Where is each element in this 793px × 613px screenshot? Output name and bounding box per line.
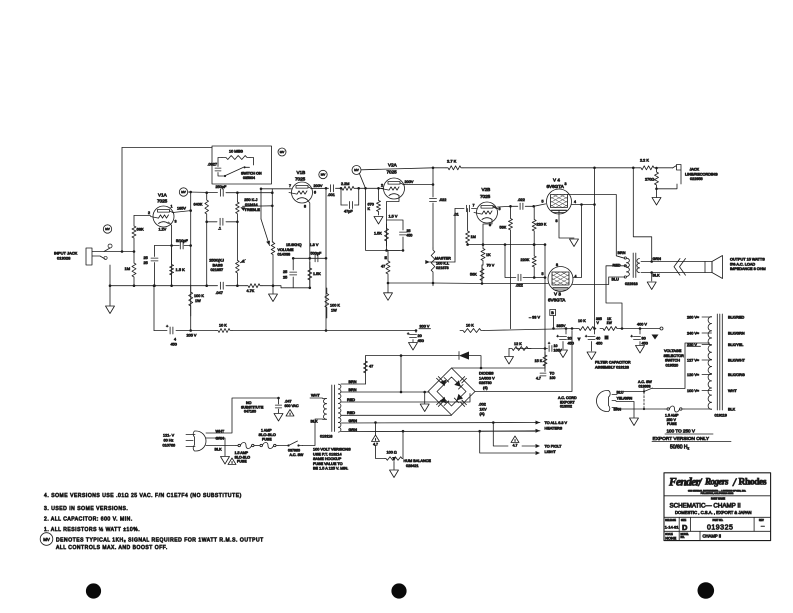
svg-text:12 K: 12 K xyxy=(514,342,522,346)
svg-text:8: 8 xyxy=(556,219,558,223)
junction dot bridge plus xyxy=(571,327,574,330)
svg-text:1W: 1W xyxy=(331,309,337,313)
ground bridge xyxy=(420,404,429,412)
junction dots tone xyxy=(205,191,208,194)
svg-text:205 V: 205 V xyxy=(187,334,197,338)
resistor 1.5K V1B xyxy=(308,262,312,288)
wire exp fuse to xfmr xyxy=(684,408,710,410)
svg-text:.001: .001 xyxy=(328,193,335,197)
wire V1B plate to coupling xyxy=(313,187,329,189)
svg-text:CBS MUSICAL INSTRUMENTS — A DI: CBS MUSICAL INSTRUMENTS — A DIVISION OF … xyxy=(688,490,746,493)
wire V2A plate xyxy=(405,184,434,186)
fuse 1.5A SLO-BLO xyxy=(236,445,238,447)
svg-text:.0027: .0027 xyxy=(208,163,218,167)
svg-text:.022: .022 xyxy=(518,198,525,202)
wire brn2 drop xyxy=(400,356,402,392)
resistor 1.5K V2A xyxy=(385,224,389,246)
svg-text:014038: 014038 xyxy=(278,253,291,257)
svg-text:/: / xyxy=(732,477,737,489)
resistor 220K V4 grid xyxy=(532,206,536,244)
wire treble wiper xyxy=(243,205,273,208)
svg-text:022918: 022918 xyxy=(625,282,638,286)
svg-text:20: 20 xyxy=(418,334,422,338)
svg-text:500pF: 500pF xyxy=(311,252,322,256)
wire ground bus right xyxy=(388,282,548,285)
wire RED2 tap xyxy=(341,414,452,416)
wire 640K branch xyxy=(206,193,208,196)
svg-text:022956: 022956 xyxy=(690,177,703,181)
wire NFB from speaker xyxy=(633,168,651,262)
junction dots V1B cath xyxy=(309,257,312,260)
speaker LS1 xyxy=(705,262,712,273)
svg-text:FUSE: FUSE xyxy=(262,438,272,442)
wire jack tip to grid node xyxy=(104,251,134,253)
wire bridge+ to 400V xyxy=(475,331,572,392)
wire BRN2 tap xyxy=(341,391,429,393)
svg-text:450: 450 xyxy=(596,341,602,345)
bridge diode D1 xyxy=(440,380,447,387)
wire bus to vol gnd xyxy=(262,285,273,287)
ground V4 cathode xyxy=(570,239,579,247)
wire V1B cathode down xyxy=(307,200,310,288)
capacitor .022 V2A xyxy=(430,198,437,200)
capacitor 47pF xyxy=(349,202,351,209)
marker square 40/450 xyxy=(605,336,609,340)
power transformer T1 secondary xyxy=(338,384,341,389)
resistor 10K B+ xyxy=(216,329,232,333)
svg-text:121- V: 121- V xyxy=(163,434,175,438)
svg-text:Rhodes: Rhodes xyxy=(739,478,767,488)
svg-text:FILTER CAPACITOR: FILTER CAPACITOR xyxy=(595,361,631,365)
svg-text:185V: 185V xyxy=(177,207,186,211)
wire grid V1A xyxy=(134,215,151,217)
svg-text:REV: REV xyxy=(759,520,764,522)
svg-text:5: 5 xyxy=(542,200,544,204)
svg-text:80: 80 xyxy=(642,337,646,341)
svg-text:MV: MV xyxy=(43,537,50,542)
resistor 10K B2 xyxy=(460,329,484,333)
wire humbal wiper gnd xyxy=(393,462,395,470)
svg-text:1M: 1M xyxy=(125,266,131,271)
wire gnd stem lineout xyxy=(656,189,658,198)
input jack J1 xyxy=(86,248,110,265)
wire plate line cont xyxy=(188,191,218,194)
jack line/recording J2 xyxy=(673,165,682,185)
svg-text:028421: 028421 xyxy=(406,464,419,468)
treble wiper arrow xyxy=(240,207,245,211)
svg-text:.047: .047 xyxy=(216,291,223,295)
test point MV input xyxy=(103,225,111,233)
wire humbal left stem2 xyxy=(376,446,386,459)
svg-text:047160: 047160 xyxy=(244,410,256,414)
bridge snubber cap A2 xyxy=(460,377,465,382)
svg-text:MV: MV xyxy=(105,227,110,231)
svg-text:7025: 7025 xyxy=(387,170,398,175)
junction dots bus xyxy=(236,284,239,287)
wire .01 to V2B grid xyxy=(472,208,477,210)
ground 670K xyxy=(374,217,383,225)
rectifier output symbol xyxy=(660,327,663,330)
capacitor 20/450 a xyxy=(410,334,417,336)
svg-text:VOLTAGE: VOLTAGE xyxy=(664,349,682,353)
test point BST FREQ xyxy=(352,166,361,175)
wire WHT drop xyxy=(310,397,323,399)
svg-text:4.7: 4.7 xyxy=(536,377,541,381)
wire B box stem xyxy=(553,316,555,329)
svg-text:450: 450 xyxy=(407,234,413,238)
ground export xyxy=(630,418,639,426)
svg-text:200V: 200V xyxy=(405,180,414,184)
wire speaker hot xyxy=(641,261,705,263)
svg-text:10: 10 xyxy=(554,344,558,348)
wire 25/450 down xyxy=(402,237,404,250)
svg-text:TO ALL 6.3 V: TO ALL 6.3 V xyxy=(545,421,568,425)
title divider 2 xyxy=(664,516,771,518)
punch hole left xyxy=(86,583,101,598)
resistor 1.5K V1A cathode xyxy=(170,246,174,286)
capacitor 4/450 xyxy=(169,327,171,334)
bridge snubber cap A4 xyxy=(460,402,465,407)
svg-text:260 V≈: 260 V≈ xyxy=(687,316,699,320)
tube V1B 7025 xyxy=(292,182,313,203)
resistor 270 lineout xyxy=(655,168,659,189)
wire bus mid xyxy=(226,285,246,287)
svg-text:V2B: V2B xyxy=(482,187,491,192)
svg-text:MV: MV xyxy=(280,150,285,154)
svg-text:47pF: 47pF xyxy=(344,210,353,214)
wire export tap BLK xyxy=(710,408,712,410)
capacitor 80/450 xyxy=(634,336,641,338)
wire export tap 260 V≈ xyxy=(702,316,712,318)
svg-text:2.2 K: 2.2 K xyxy=(640,159,649,163)
wire export tap 127 V≈ xyxy=(702,359,712,361)
svg-text:SLO-BLO: SLO-BLO xyxy=(259,432,276,437)
svg-text:BLK/ORG: BLK/ORG xyxy=(728,373,745,377)
svg-text:—: — xyxy=(761,524,765,528)
svg-text:V 4: V 4 xyxy=(553,178,560,183)
ground 20/450 b xyxy=(559,350,568,358)
wire 25/450 branch xyxy=(387,220,404,230)
wire export tap 100 V≈ xyxy=(702,390,712,392)
wire lineout to jack xyxy=(657,167,673,169)
wire export tap 220 V xyxy=(702,344,712,346)
power transformer T1 core xyxy=(332,385,335,432)
svg-text:1.5K: 1.5K xyxy=(313,272,321,276)
ground V2A 47 xyxy=(384,293,393,301)
svg-text:(A): (A) xyxy=(480,412,486,416)
wire 80/450 stem xyxy=(639,329,641,335)
wire GRN2 tap xyxy=(341,430,535,432)
speaker cable chevrons xyxy=(674,259,686,276)
potentiometer VOLUME 15.9K xyxy=(271,242,275,286)
resistor 10K screens xyxy=(577,327,596,331)
capacitor .022 to V4 xyxy=(519,203,521,209)
wire volume riser xyxy=(271,189,274,242)
wire 25/25 V1B to bus xyxy=(293,277,310,288)
wire mv stub xyxy=(359,173,365,188)
resistor 1K 1W xyxy=(600,327,620,331)
svg-text:1KV: 1KV xyxy=(480,407,488,411)
wire pilot 2 xyxy=(480,431,535,453)
svg-text:V: V xyxy=(597,321,600,325)
svg-text:25: 25 xyxy=(144,261,148,265)
wire V1B bus join left xyxy=(273,286,293,288)
wire boost loop xyxy=(218,158,222,167)
svg-text:1-14-81: 1-14-81 xyxy=(665,525,680,530)
svg-text:8: 8 xyxy=(556,263,558,267)
wire 47pF bypass loop xyxy=(340,188,342,205)
svg-text:.01: .01 xyxy=(454,213,459,217)
svg-text:+: + xyxy=(585,334,588,339)
svg-text:127 V≈: 127 V≈ xyxy=(687,359,699,363)
wire 12K gnd xyxy=(508,349,510,357)
svg-text:10 K: 10 K xyxy=(578,319,586,323)
svg-text:10 K: 10 K xyxy=(466,324,474,328)
AC plug export P2 xyxy=(597,391,611,412)
svg-text:PART NO.: PART NO. xyxy=(713,519,724,522)
svg-text:240 V≈: 240 V≈ xyxy=(687,332,699,336)
wire bias cap stub xyxy=(545,348,548,350)
wire spk gnd stem xyxy=(651,273,653,282)
svg-text:100 V≈: 100 V≈ xyxy=(687,389,699,393)
svg-text:5% A.C. LOAD: 5% A.C. LOAD xyxy=(730,262,755,266)
wire humbal right xyxy=(402,431,404,458)
capacitor 250pF xyxy=(219,189,221,196)
svg-text:SIZE: SIZE xyxy=(681,520,687,522)
svg-text:47: 47 xyxy=(369,365,373,369)
svg-text:MODEL: MODEL xyxy=(681,534,690,536)
svg-text:.022: .022 xyxy=(439,198,446,202)
svg-text:V1B: V1B xyxy=(297,170,306,175)
svg-text:!: ! xyxy=(375,438,376,442)
svg-text:DOMESTIC , C.S.A. , EXPORT & J: DOMESTIC , C.S.A. , EXPORT & JAPAN xyxy=(675,510,752,515)
svg-text:026730: 026730 xyxy=(479,381,492,385)
svg-text:010766: 010766 xyxy=(163,444,176,448)
svg-text:.022: .022 xyxy=(516,284,523,288)
svg-text:6V6GTA: 6V6GTA xyxy=(547,184,565,189)
ground lineout xyxy=(652,198,661,206)
svg-text:MV: MV xyxy=(354,168,359,172)
title divider 1 xyxy=(664,495,771,497)
wire 12K row xyxy=(516,348,545,350)
wire B+ rail xyxy=(154,330,167,332)
svg-text:019520: 019520 xyxy=(666,363,679,367)
svg-text:V2A: V2A xyxy=(388,163,398,168)
capacitor 40/450 xyxy=(588,336,595,338)
ground 12K xyxy=(505,357,514,365)
svg-text:25: 25 xyxy=(283,276,287,280)
capacitor 25/25 V1A xyxy=(151,257,158,259)
capacitor .1 tone xyxy=(219,218,221,225)
capacitor 500pF xyxy=(314,255,316,262)
resistor 1M input xyxy=(132,252,136,286)
wire 40/450 stem xyxy=(594,329,596,335)
output transformer T2 secondary xyxy=(637,259,640,264)
wire gnd stem input xyxy=(109,286,111,306)
svg-text:HUM BALANCE: HUM BALANCE xyxy=(404,459,432,463)
boost switch S1 xyxy=(226,168,244,176)
wire GRN1 tap xyxy=(341,422,535,425)
svg-text:GRN: GRN xyxy=(653,257,662,261)
svg-text:V1A: V1A xyxy=(158,193,168,198)
wire V2B plate coupling xyxy=(511,205,518,207)
junction dots humbal xyxy=(374,421,377,424)
svg-text:450: 450 xyxy=(568,341,574,345)
junction dots 400V xyxy=(593,327,596,330)
junction dots V2B xyxy=(482,243,485,246)
wire OT red tap xyxy=(606,266,627,329)
bridge snubber cap A1 xyxy=(437,378,442,383)
warning pilot xyxy=(511,436,519,443)
wire to V4 grid xyxy=(525,204,545,206)
bridge rectifier inner diamond xyxy=(437,377,466,406)
underline export xyxy=(652,434,731,442)
tube V3 6V6GTA xyxy=(548,267,573,292)
wire export tap 240 V≈ xyxy=(702,332,712,334)
svg-text:!: ! xyxy=(515,439,516,443)
svg-text:100 VOLT VERSIONS: 100 VOLT VERSIONS xyxy=(313,448,351,452)
wire ground bus left xyxy=(110,285,218,287)
svg-text:70 V: 70 V xyxy=(487,264,495,268)
svg-text:019325: 019325 xyxy=(707,525,733,532)
wire 40/450 gnd xyxy=(591,342,593,352)
wire jack bottom row xyxy=(657,184,678,189)
wire exp BRN xyxy=(617,408,644,410)
svg-text:.047: .047 xyxy=(285,400,292,404)
svg-text:YEL/GRN: YEL/GRN xyxy=(617,397,633,401)
svg-text:100 K.L: 100 K.L xyxy=(436,261,449,265)
svg-text:6: 6 xyxy=(499,207,501,211)
svg-text:4. SOME VERSIONS USE .01Ω 25: 4. SOME VERSIONS USE .01Ω 25 VAC. F/N C1… xyxy=(44,493,242,499)
svg-text:PART NAME: PART NAME xyxy=(711,498,725,501)
wire 80/450 gnd xyxy=(639,342,641,346)
svg-text:FUSE: FUSE xyxy=(237,460,247,464)
wire plug WHT xyxy=(206,398,279,433)
output transformer T2 primary xyxy=(627,258,630,263)
svg-text:019119: 019119 xyxy=(715,414,727,418)
potentiometer hum balance 100 xyxy=(385,457,403,461)
wire plate line cont2 xyxy=(226,192,272,194)
svg-text:200V: 200V xyxy=(314,184,323,188)
capacitor 4.7 bias xyxy=(540,372,546,374)
wire input riser xyxy=(121,148,123,252)
wire B+ rail 3 xyxy=(232,330,416,332)
resistor 47 V2A xyxy=(386,250,390,283)
wire fuse link xyxy=(256,445,258,447)
wire .047 stem xyxy=(278,398,280,404)
svg-text:+: + xyxy=(631,334,634,339)
svg-text:60 Hz: 60 Hz xyxy=(164,439,174,443)
bridge diode D2 xyxy=(454,380,461,387)
punch hole middle xyxy=(391,583,406,598)
boost switch box outline xyxy=(212,146,272,184)
bias test point box B xyxy=(550,310,556,316)
wire to V3 grid xyxy=(523,277,546,279)
svg-text:SAME HOOKUP: SAME HOOKUP xyxy=(313,457,342,461)
wire 25/25 down V1A xyxy=(154,263,156,286)
svg-text:25: 25 xyxy=(283,270,287,274)
capacitor 10/100V bias xyxy=(548,346,550,352)
junction dot riser left xyxy=(153,284,156,287)
wire jack ground stem xyxy=(109,265,111,286)
svg-text:B: B xyxy=(551,311,554,315)
wire B+ rail 4 xyxy=(484,329,577,331)
svg-text:NO.: NO. xyxy=(681,537,685,539)
svg-text:A.C. SW: A.C. SW xyxy=(290,453,304,457)
wire 5-10pF branch b xyxy=(184,245,191,247)
master wiper arrow xyxy=(425,260,430,264)
wire B+ riser V1B xyxy=(325,188,327,330)
wire V1A cathode xyxy=(169,222,172,286)
resistor 100K 1W V1B xyxy=(325,288,329,318)
junction dots top line xyxy=(593,167,596,170)
resistor 1K V2B xyxy=(481,245,485,265)
capacitor .01 xyxy=(466,205,468,211)
svg-text:56K: 56K xyxy=(500,226,507,230)
svg-text:(4): (4) xyxy=(483,386,488,390)
svg-text:SCHEMATIC— CHAMP II: SCHEMATIC— CHAMP II xyxy=(670,503,742,510)
svg-text:68K: 68K xyxy=(137,227,144,232)
svg-text:SCALE: SCALE xyxy=(665,533,673,536)
test point MV boost xyxy=(278,148,286,156)
svg-text:1.5K: 1.5K xyxy=(374,232,382,236)
svg-text:MV: MV xyxy=(181,190,186,194)
wire cathode row 500pF xyxy=(293,257,326,259)
potentiometer TREBLE 250K-J xyxy=(236,202,240,222)
svg-text:SELECTOR: SELECTOR xyxy=(664,354,685,358)
bridge snubber cap A3 xyxy=(437,400,442,405)
wire 20/450a gnd xyxy=(412,340,414,343)
svg-text:WHT: WHT xyxy=(311,394,320,398)
wire bridge gnd stem xyxy=(424,392,426,404)
svg-text:Rogers: Rogers xyxy=(704,477,729,487)
svg-text:7: 7 xyxy=(289,184,291,188)
svg-text:DIODES: DIODES xyxy=(479,372,494,376)
svg-text:BE 1.5 A 125 V. MIN.: BE 1.5 A 125 V. MIN. xyxy=(313,467,348,471)
arrow heaters 1 xyxy=(536,421,541,425)
test point MV V1B xyxy=(319,170,327,178)
junction dots rail mid xyxy=(552,327,555,330)
resistor 670K xyxy=(377,188,381,215)
svg-text:BLK/WHT: BLK/WHT xyxy=(728,359,746,363)
underline 220V xyxy=(687,345,701,347)
svg-text:1.2V: 1.2V xyxy=(159,228,167,232)
svg-text:+: + xyxy=(166,324,169,329)
svg-text:100 Ω: 100 Ω xyxy=(387,451,397,455)
resistor 15K bias xyxy=(543,352,547,368)
wire gnd stem vol xyxy=(272,286,274,294)
wire V2A grid return xyxy=(366,188,400,250)
resistor 68K grid stopper xyxy=(132,216,136,252)
svg-text:1K: 1K xyxy=(486,253,491,257)
export transformer T3 core xyxy=(717,314,722,410)
junction dots screens xyxy=(580,203,583,206)
svg-text:7025: 7025 xyxy=(480,194,491,199)
punch hole right xyxy=(698,582,715,599)
wire 25/25 branch V1A xyxy=(154,246,156,257)
wire screen feed xyxy=(582,204,595,206)
svg-text:K: K xyxy=(368,207,371,211)
svg-text:BLK: BLK xyxy=(653,274,661,278)
ground plug GRN xyxy=(221,457,230,465)
wire B+ riser V1A xyxy=(190,192,192,331)
svg-text:021873: 021873 xyxy=(436,266,449,270)
svg-text:220K: 220K xyxy=(521,258,530,262)
svg-text:100 TO 250 V: 100 TO 250 V xyxy=(667,429,696,434)
wire rail riser left xyxy=(153,286,155,331)
svg-text:2: 2 xyxy=(381,184,383,188)
wire .001 to 2.2M xyxy=(336,187,340,189)
